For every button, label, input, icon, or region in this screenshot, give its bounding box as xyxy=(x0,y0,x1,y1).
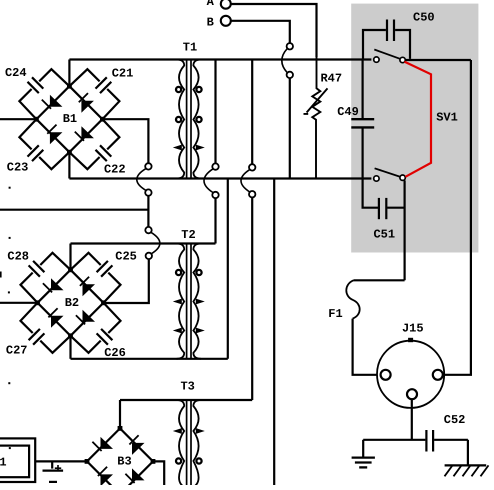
wire jumper J2 upper xyxy=(214,60,216,164)
capacitor C28 (bridge snubber) xyxy=(21,253,71,303)
svg-text:C50: C50 xyxy=(413,10,435,24)
T2 winding tap xyxy=(196,328,205,334)
capacitor C50 xyxy=(363,10,435,59)
T1 winding tap xyxy=(176,117,181,122)
switch SV1 red linkage xyxy=(404,62,431,177)
svg-text:R47: R47 xyxy=(320,71,342,85)
wire upper pole to right bus xyxy=(405,59,471,61)
jumper J4 link arc xyxy=(151,232,160,253)
T2 winding tap xyxy=(173,299,182,305)
wire B3 top node to T3 top line xyxy=(119,400,121,428)
B3 node dots xyxy=(85,426,156,490)
svg-text:C52: C52 xyxy=(444,413,466,427)
capacitor C24 (bridge snubber) xyxy=(19,69,69,119)
connector jumper JB contact 1 xyxy=(287,43,293,49)
ground (chassis) xyxy=(445,440,489,477)
T3 winding tap xyxy=(196,428,205,434)
wire A to bus xyxy=(231,4,317,57)
svg-text:C25: C25 xyxy=(115,250,137,264)
terminal A xyxy=(207,0,231,9)
capacitor C25 (bridge snubber) xyxy=(71,253,121,303)
svg-text:B: B xyxy=(207,16,214,30)
T1 winding tap xyxy=(196,87,201,92)
diode B1 D lower-right xyxy=(75,126,94,141)
wire lower pole down xyxy=(404,180,406,280)
diode B1 D upper-right xyxy=(79,93,94,113)
svg-text:C51: C51 xyxy=(373,228,395,242)
diode B1 D lower-left xyxy=(47,125,62,145)
wire J4 to B2 right node xyxy=(104,259,149,303)
bridge rectifier B2 diamond xyxy=(38,270,104,336)
B1 node dots xyxy=(34,84,105,155)
wire B2 top node to T2 top line xyxy=(69,244,71,270)
svg-text:A: A xyxy=(207,0,215,9)
svg-text:1: 1 xyxy=(0,456,7,470)
wire T2 top line xyxy=(71,242,216,244)
svg-text:C21: C21 xyxy=(112,66,134,80)
svg-text:F1: F1 xyxy=(328,307,342,321)
jumper J2 contact 1 xyxy=(212,163,218,169)
resistor R47 (varistor) xyxy=(304,57,343,179)
wire B2 bottom node to T2 bottom line xyxy=(69,336,71,359)
bridge rectifier B1 diamond xyxy=(36,86,102,152)
diode B2 D lower-right xyxy=(76,310,95,325)
jumper J3 contact 2 xyxy=(249,191,255,197)
capacitor C21 (bridge snubber) xyxy=(69,69,119,119)
svg-text:C22: C22 xyxy=(104,163,126,177)
diode B3 D upper-left xyxy=(92,437,113,451)
wire bottom bus xyxy=(69,177,371,179)
T2 winding tap xyxy=(196,299,205,305)
diode B3 D lower-right xyxy=(125,468,144,483)
wire to fuse xyxy=(354,279,405,281)
wire B1 left node to left edge xyxy=(0,118,36,120)
wire B3 left node to box xyxy=(35,460,87,462)
svg-text:C28: C28 xyxy=(7,250,29,264)
capacitor C22 (bridge snubber) xyxy=(69,119,119,169)
wire JB to lower bus xyxy=(289,78,291,178)
wire bottom bus drop x=274 xyxy=(273,179,275,486)
T1 winding tap xyxy=(173,145,182,151)
capacitor C+ (polarized) xyxy=(43,461,64,482)
switch SV1 lower pole contact R xyxy=(400,175,405,180)
switch assembly highlight box SV1 xyxy=(351,4,478,253)
svg-text:T2: T2 xyxy=(181,228,195,242)
jumper J3 link arc xyxy=(241,170,250,192)
diode B2 D upper-right xyxy=(80,277,95,297)
wire junction to left edge xyxy=(0,209,148,211)
svg-text:C49: C49 xyxy=(337,105,359,119)
svg-text:B3: B3 xyxy=(117,455,131,469)
ground (earth) xyxy=(352,440,375,468)
switch SV1 lower pole contact L xyxy=(374,176,379,181)
T3 winding tap xyxy=(173,428,182,434)
wire B1 right node to jumper J1 xyxy=(102,119,148,163)
connector jumper JB link arc xyxy=(282,49,287,73)
jumper J4 contact 1 xyxy=(145,227,151,233)
connector J15 xyxy=(377,321,444,408)
T3 winding tap xyxy=(196,458,201,463)
wire B1 top node to top bus xyxy=(68,60,70,87)
wire top bus xyxy=(69,58,371,60)
T1 winding tap xyxy=(196,117,201,122)
svg-text:T3: T3 xyxy=(180,380,194,394)
T3 winding tap xyxy=(176,458,181,463)
wire B to connector J-B xyxy=(231,21,290,43)
switch SV1 upper pole contact R xyxy=(400,57,405,62)
svg-text:T1: T1 xyxy=(183,40,197,54)
svg-text:B2: B2 xyxy=(65,296,79,310)
wire J1 to junction xyxy=(147,196,149,227)
jumper J1 contact 1 xyxy=(145,163,151,169)
capacitor C52 xyxy=(363,413,468,451)
wire T3 top line xyxy=(120,399,252,401)
jumper J1 link arc xyxy=(137,169,146,191)
svg-text:B1: B1 xyxy=(63,112,77,126)
jumper J2 contact 2 xyxy=(212,192,218,198)
jumper J3 contact 1 xyxy=(249,164,255,170)
B2 node dots xyxy=(35,267,106,338)
wire fuse to J15 pin 1 xyxy=(353,319,381,375)
svg-text:J15: J15 xyxy=(402,321,424,335)
svg-text:C24: C24 xyxy=(5,66,27,80)
capacitor C49 xyxy=(337,60,374,179)
wire J2 to T2 top line xyxy=(214,198,216,243)
T2 winding tap xyxy=(176,270,181,275)
diode B3 D lower-left xyxy=(98,467,113,487)
frame dots xyxy=(0,187,11,449)
module box X1 xyxy=(0,438,35,482)
connector jumper JB contact 2 xyxy=(287,72,293,78)
svg-text:C23: C23 xyxy=(7,161,29,175)
transformer T2 xyxy=(177,244,201,359)
jumper J1 contact 2 xyxy=(145,189,151,195)
T1 winding tap xyxy=(176,87,181,92)
diode B2 D lower-left xyxy=(48,308,63,328)
transformer T3 xyxy=(177,400,201,487)
diode B1 D upper-left xyxy=(42,95,63,109)
bridge rectifier B3 diamond xyxy=(87,428,153,490)
switch SV1 lower pole blade xyxy=(375,168,400,176)
terminal B xyxy=(207,16,231,30)
jumper J4 contact 2 xyxy=(146,253,152,259)
capacitor C26 (bridge snubber) xyxy=(71,303,121,353)
wire B3 right node down xyxy=(153,461,164,485)
svg-text:SV1: SV1 xyxy=(436,110,458,124)
wire B2 left node to left edge xyxy=(0,302,38,304)
transformer T1 xyxy=(177,60,201,179)
wire T2 bottom line xyxy=(71,358,228,360)
wire jumper J3 upper xyxy=(251,60,253,165)
T2 winding tap xyxy=(196,270,201,275)
wire bottom bus to T2 bottom line xyxy=(227,179,229,359)
wire J15 pin 3 down xyxy=(411,399,413,440)
fuse F1 xyxy=(328,280,359,321)
T1 winding tap xyxy=(196,145,205,151)
jumper J2 link arc xyxy=(204,169,213,193)
diode B3 D upper-right xyxy=(129,435,144,455)
wire right bus xyxy=(443,60,471,375)
wire B1 bottom node to bottom bus xyxy=(68,152,70,178)
wire J3 to T3 top line xyxy=(251,197,253,400)
capacitor C27 (bridge snubber) xyxy=(21,303,71,353)
capacitor C51 xyxy=(363,179,405,242)
switch SV1 upper pole contact L xyxy=(374,57,379,62)
diode B2 D upper-left xyxy=(43,278,64,292)
capacitor C23 (bridge snubber) xyxy=(19,119,69,169)
svg-text:C27: C27 xyxy=(6,344,28,358)
switch SV1 upper pole blade xyxy=(374,50,399,59)
T2 winding tap xyxy=(173,328,182,334)
